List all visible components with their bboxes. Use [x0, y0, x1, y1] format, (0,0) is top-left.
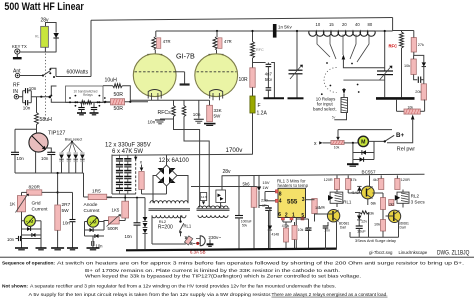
svg-text:RL: RL [35, 34, 39, 38]
svg-text:1700v: 1700v [226, 147, 244, 154]
svg-text:5k6: 5k6 [243, 182, 251, 187]
svg-text:10uF: 10uF [357, 230, 366, 234]
svg-text:When keyed the 33k is bypassed: When keyed the 33k is bypassed by the TI… [85, 273, 361, 279]
svg-text:B+: B+ [396, 132, 404, 139]
svg-text:BC557: BC557 [362, 170, 376, 175]
svg-text:4: 4 [279, 198, 282, 204]
svg-text:R=200: R=200 [158, 225, 173, 231]
svg-text:28v: 28v [223, 169, 232, 175]
svg-text:2k2: 2k2 [389, 203, 394, 207]
svg-text:gi-7bcct.svg: gi-7bcct.svg [369, 250, 393, 255]
svg-text:RFC: RFC [389, 44, 398, 49]
svg-text:10n: 10n [41, 156, 49, 161]
svg-text:10k: 10k [315, 206, 321, 210]
svg-text:10R: 10R [239, 77, 249, 83]
svg-text:120R: 120R [401, 178, 410, 182]
svg-text:TIP127: TIP127 [48, 131, 65, 137]
svg-text:8: 8 [279, 192, 282, 198]
svg-text:5W: 5W [214, 113, 222, 118]
svg-text:555: 555 [287, 198, 298, 205]
svg-text:A 5v supply for the ten input: A 5v supply for the ten input circuit re… [29, 292, 272, 298]
svg-text:58uH: 58uH [40, 117, 53, 123]
svg-text:68k: 68k [371, 202, 377, 206]
svg-text:M: M [361, 140, 365, 146]
svg-text:10n: 10n [29, 86, 37, 91]
svg-text:6: 6 [278, 212, 281, 218]
svg-text:Darl: Darl [400, 225, 406, 229]
svg-text:RL1: RL1 [343, 200, 352, 205]
svg-text:GI-7B: GI-7B [176, 52, 195, 61]
svg-text:10k: 10k [408, 106, 414, 110]
svg-text:heaters to temp: heaters to temp [278, 183, 309, 188]
svg-text:RL2: RL2 [159, 219, 167, 224]
svg-text:10n: 10n [7, 237, 15, 242]
svg-text:33K: 33K [214, 108, 223, 113]
svg-text:15: 15 [329, 22, 334, 27]
svg-text:1R5: 1R5 [92, 189, 101, 195]
svg-text:Current: Current [84, 208, 101, 214]
svg-text:B+ of 1700v remains on. Plate: B+ of 1700v remains on. Plate current is… [85, 268, 340, 274]
svg-text:Bias select: Bias select [65, 138, 82, 142]
svg-text:4n7: 4n7 [265, 72, 273, 77]
svg-text:x: x [140, 160, 143, 165]
svg-text:600Watts: 600Watts [67, 70, 89, 76]
svg-text:At switch on heaters are on fo: At switch on heaters are on for approx 3… [57, 260, 464, 266]
svg-text:50v: 50v [242, 223, 248, 227]
svg-text:RF: RF [13, 82, 20, 88]
svg-text:There are always 2 relays ener: There are always 2 relays energised as a… [272, 292, 388, 298]
svg-text:27k: 27k [418, 43, 424, 47]
svg-text:Linux/Inkscape: Linux/Inkscape [399, 250, 428, 255]
svg-text:Relays: Relays [83, 93, 93, 97]
svg-text:Darl: Darl [340, 225, 346, 229]
svg-text:3 Secs: 3 Secs [411, 200, 426, 205]
svg-text:500R: 500R [108, 226, 119, 231]
svg-text:47k: 47k [350, 178, 356, 182]
svg-text:Grid: Grid [32, 201, 41, 207]
svg-text:47R: 47R [224, 39, 232, 44]
svg-text:F: F [258, 103, 261, 109]
svg-text:50R: 50R [114, 106, 124, 112]
svg-text:5Kv: 5Kv [265, 77, 273, 82]
svg-text:80: 80 [368, 22, 373, 27]
svg-text:500 Watt HF Linear: 500 Watt HF Linear [4, 1, 84, 13]
svg-text:10k: 10k [298, 228, 304, 232]
svg-text:Not shown:: Not shown: [2, 284, 28, 290]
svg-text:10k: 10k [404, 64, 410, 68]
svg-text:1.2A: 1.2A [257, 111, 268, 117]
svg-text:10: 10 [316, 22, 321, 27]
svg-text:2: 2 [285, 213, 288, 219]
svg-text:RFCs: RFCs [158, 110, 172, 116]
svg-text:12 x 330uF 385V: 12 x 330uF 385V [105, 143, 151, 149]
svg-text:3Secs Anti Surge delay: 3Secs Anti Surge delay [355, 238, 396, 243]
svg-text:10n: 10n [148, 120, 156, 125]
svg-text:2R7: 2R7 [62, 202, 71, 208]
svg-text:1K: 1K [10, 202, 17, 208]
svg-text:Anode: Anode [84, 202, 98, 208]
svg-text:A separate rectifier and 3 pin: A separate rectifier and 3 pin regulator… [30, 284, 336, 290]
svg-text:band select.: band select. [313, 107, 337, 112]
svg-text:12 x 6A100: 12 x 6A100 [159, 158, 190, 164]
svg-text:12v: 12v [361, 220, 367, 224]
svg-text:KEY TX: KEY TX [12, 44, 27, 49]
svg-text:Sequence of operation:: Sequence of operation: [2, 260, 55, 266]
svg-text:10n: 10n [23, 106, 31, 111]
svg-text:10n: 10n [193, 112, 201, 117]
svg-text:5v: 5v [332, 116, 336, 120]
svg-text:1K5: 1K5 [112, 208, 120, 213]
svg-text:1n 5Kv: 1n 5Kv [278, 25, 292, 30]
svg-text:Rel pwr: Rel pwr [397, 147, 415, 153]
svg-text:50R: 50R [114, 92, 124, 98]
svg-text:12.6: 12.6 [201, 195, 207, 199]
svg-text:120R: 120R [324, 178, 333, 182]
svg-text:5W: 5W [62, 208, 70, 214]
svg-text:DWG. ZL1BJQ: DWG. ZL1BJQ [437, 250, 470, 256]
svg-text:20: 20 [342, 22, 347, 27]
svg-text:3: 3 [302, 197, 305, 203]
svg-text:RFC: RFC [256, 48, 264, 52]
svg-text:IN: IN [13, 89, 18, 95]
svg-text:20k: 20k [415, 90, 421, 94]
svg-text:47R: 47R [163, 39, 171, 44]
svg-text:RL2: RL2 [411, 194, 420, 199]
svg-text:10k: 10k [374, 223, 380, 227]
svg-text:x: x [314, 141, 317, 147]
svg-text:10n: 10n [63, 221, 71, 226]
svg-text:4k7: 4k7 [373, 178, 379, 182]
svg-text:10n: 10n [17, 156, 25, 161]
svg-text:Current: Current [32, 207, 49, 213]
svg-text:10n: 10n [125, 234, 133, 239]
svg-text:230v~: 230v~ [208, 235, 221, 240]
svg-text:10uH: 10uH [105, 78, 118, 84]
svg-text:1W: 1W [262, 185, 268, 190]
svg-text:6 x 47K 5W: 6 x 47K 5W [112, 149, 143, 155]
svg-text:uF: uF [262, 202, 267, 207]
svg-text:4148: 4148 [272, 233, 280, 237]
svg-text:RL1: RL1 [184, 223, 192, 228]
svg-text:10k: 10k [334, 146, 340, 150]
svg-text:40: 40 [355, 22, 360, 27]
